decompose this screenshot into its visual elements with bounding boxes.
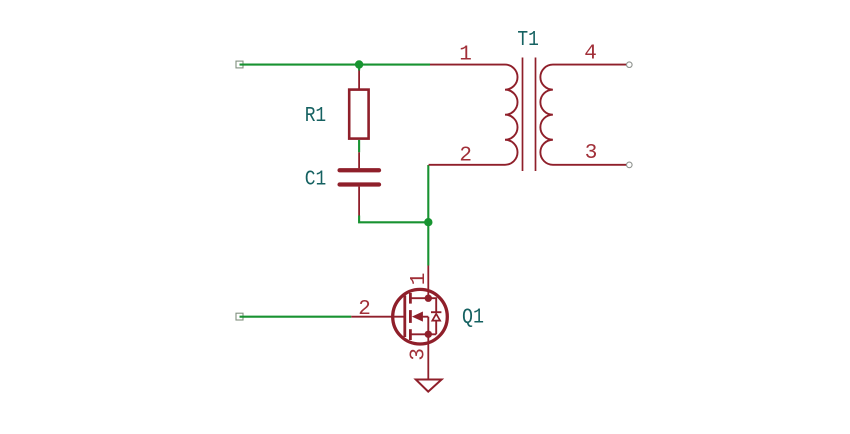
T1 pin 3 open end circle: [627, 162, 633, 168]
svg-text:R1: R1: [305, 105, 327, 128]
Q1 drain node dot: [425, 295, 432, 302]
svg-text:1: 1: [459, 44, 472, 67]
resistor R1 pin 1: [358, 71, 360, 89]
transformer T1 secondary winding with pin 4 and pin 3 leads: [540, 65, 627, 165]
wire end square left-top: [236, 61, 243, 68]
Q1 body diode cathode bar: [431, 311, 441, 313]
svg-text:4: 4: [584, 43, 597, 66]
capacitor C1 top plate: [340, 168, 379, 172]
Q1 bulk link: [423, 317, 429, 335]
svg-text:2: 2: [358, 298, 371, 321]
transformer T1 primary winding with pin 1 and pin 2 leads: [429, 65, 518, 165]
svg-text:T1: T1: [517, 29, 539, 52]
wire junction to R1: [358, 65, 360, 71]
transformer T1 core right bar: [535, 58, 537, 172]
Q1 body circle: [393, 289, 448, 344]
wire T1 pin 2 to Q1 drain: [427, 165, 429, 266]
T1 pin 4 open end circle: [627, 62, 633, 68]
transistor Q1: [351, 266, 447, 380]
Q1 bulk arrow: [412, 312, 423, 322]
ground: [416, 380, 442, 392]
capacitor C1 bottom plate: [340, 182, 379, 186]
transformer T1: [429, 58, 627, 172]
resistor R1: [349, 90, 368, 139]
svg-text:C1: C1: [305, 169, 327, 192]
transformer T1 core left bar: [522, 58, 524, 172]
wire gate rail: [240, 316, 352, 318]
capacitor C1 pin 1: [358, 152, 360, 168]
svg-text:Q1: Q1: [462, 306, 484, 329]
Q1 drain link: [410, 297, 428, 299]
wire top rail: [240, 64, 431, 66]
Q1 body diode leads: [428, 298, 436, 334]
capacitor C1 pin 2: [358, 187, 360, 216]
Q1 channel bars: [409, 293, 412, 304]
Q1 gate pin: [351, 316, 404, 318]
wire R1 to C1: [358, 140, 360, 152]
svg-text:2: 2: [459, 144, 472, 167]
wire end square left-bottom: [236, 313, 243, 320]
Q1 source pin: [427, 334, 429, 379]
Q1 drain pin: [427, 266, 429, 299]
junction node top: [355, 60, 363, 68]
svg-text:3: 3: [408, 348, 431, 361]
wire C1 to junction: [359, 216, 428, 223]
svg-text:1: 1: [408, 273, 431, 286]
Q1 body diode triangle: [432, 314, 440, 321]
junction node mid: [424, 218, 432, 226]
Q1 gate bar: [403, 296, 406, 338]
Q1 source link: [410, 333, 436, 335]
capacitor C1: [340, 170, 379, 215]
Q1 source node dot: [425, 331, 432, 338]
svg-text:3: 3: [585, 142, 598, 165]
